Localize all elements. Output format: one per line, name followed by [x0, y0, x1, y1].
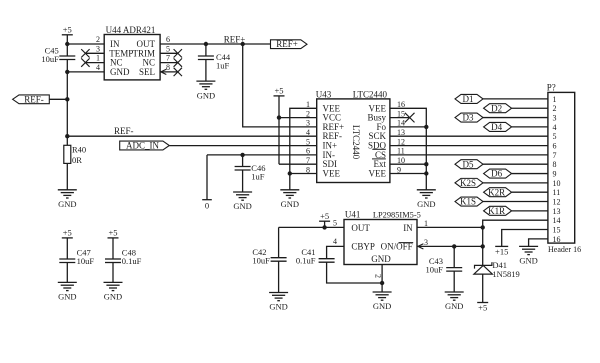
- power +5 (C48): [108, 228, 119, 238]
- svg-text:12: 12: [553, 198, 561, 207]
- wire U43 pin 8 VEE: [290, 173, 317, 175]
- svg-text:7: 7: [306, 156, 310, 165]
- port ADC_IN: [120, 140, 170, 150]
- svg-text:9: 9: [553, 170, 557, 179]
- wire D3 to header pin 3: [483, 117, 548, 119]
- wire C47 to ground: [66, 263, 68, 283]
- junction: [65, 70, 69, 74]
- svg-text:GND: GND: [104, 292, 122, 302]
- wire U43 pin 6 IN-: [207, 154, 317, 156]
- svg-text:3: 3: [306, 119, 310, 128]
- connector P? Header 16 body: [548, 92, 575, 243]
- junction: [424, 162, 428, 166]
- label C46 value: [251, 163, 265, 182]
- svg-text:1uF: 1uF: [251, 172, 264, 182]
- wire D4 to header pin 4: [512, 126, 548, 128]
- wire K2S to header pin 10: [483, 182, 548, 184]
- svg-text:0.1uF: 0.1uF: [122, 256, 142, 266]
- port D5: [455, 159, 483, 169]
- svg-text:GND: GND: [519, 256, 537, 266]
- wire U43 pin 14 Fo: [390, 126, 426, 128]
- svg-text:D5: D5: [463, 159, 474, 169]
- voltage regulator U41 LP2985IM5-5 body: [344, 220, 417, 265]
- svg-text:6: 6: [306, 147, 310, 156]
- svg-text:10uF: 10uF: [426, 265, 444, 275]
- port K1R: [484, 206, 512, 216]
- svg-text:2: 2: [374, 274, 383, 278]
- svg-text:REF-: REF-: [114, 126, 134, 136]
- port K2R: [484, 187, 512, 197]
- svg-text:7: 7: [553, 151, 557, 160]
- svg-text:7: 7: [166, 54, 170, 63]
- svg-text:14: 14: [553, 216, 561, 225]
- svg-text:4: 4: [553, 123, 557, 132]
- svg-text:U41: U41: [345, 210, 361, 220]
- U43 pin numbers left: [306, 100, 310, 174]
- wire C42 top: [278, 227, 280, 257]
- wire U43 pin 1 VEE: [290, 108, 317, 190]
- op-amp U44 ADR421 body: [104, 35, 160, 80]
- svg-text:6: 6: [553, 142, 557, 151]
- svg-text:2: 2: [553, 104, 557, 113]
- svg-text:0: 0: [205, 201, 209, 211]
- U44 pin 7 stub no-connect: [160, 62, 178, 64]
- label C44 value: [216, 52, 231, 71]
- wire REF- port to rail: [49, 98, 67, 100]
- wire U41 IN net: [417, 226, 483, 228]
- port D3: [455, 113, 483, 123]
- svg-text:REF+: REF+: [276, 39, 298, 49]
- svg-text:13: 13: [553, 207, 561, 216]
- svg-text:GND: GND: [281, 199, 299, 209]
- U43 pin 15 Busy stub no-connect: [390, 117, 410, 119]
- wire U43 pin 9 VEE: [390, 173, 426, 175]
- wire IN node down to D41: [482, 227, 484, 265]
- wire header pin 16 to ground: [529, 239, 548, 247]
- svg-text:15: 15: [553, 226, 561, 235]
- svg-text:5: 5: [553, 132, 557, 141]
- wire U44 pin 2 IN: [67, 43, 104, 45]
- wire U43 pin 10 Ext: [390, 163, 426, 165]
- junction: [380, 281, 384, 285]
- svg-text:VEE: VEE: [323, 169, 341, 179]
- junction: [424, 171, 428, 175]
- svg-text:1uF: 1uF: [216, 61, 230, 71]
- label C42 value: [252, 247, 270, 266]
- wire C43 to ground: [453, 271, 455, 292]
- junction REF- net: [65, 134, 69, 138]
- svg-text:D2: D2: [491, 103, 502, 113]
- svg-text:2: 2: [96, 35, 100, 44]
- wire +5 to C45: [66, 35, 68, 56]
- resistor R40: [64, 145, 71, 163]
- svg-text:10: 10: [553, 179, 561, 188]
- power +5 (D41): [477, 302, 488, 312]
- svg-text:1: 1: [306, 100, 310, 109]
- svg-text:5: 5: [306, 137, 310, 146]
- svg-text:8: 8: [306, 165, 310, 174]
- ground (C47): [58, 282, 77, 301]
- svg-text:8: 8: [166, 63, 170, 72]
- svg-text:11: 11: [553, 188, 561, 197]
- power +5 (above U43): [274, 86, 285, 96]
- wire U41 GND pin 2: [381, 265, 383, 293]
- svg-text:ADC_IN: ADC_IN: [126, 140, 159, 150]
- U43 left pin names: [323, 103, 345, 178]
- wire C48 to ground: [112, 263, 114, 283]
- wire U43 pin 16 VEE to ground rail: [390, 108, 426, 190]
- svg-text:3: 3: [553, 114, 557, 123]
- capacitor C41: [319, 259, 335, 263]
- power +15: [495, 246, 508, 256]
- svg-text:K1S: K1S: [460, 197, 476, 207]
- svg-text:K1R: K1R: [488, 206, 505, 216]
- svg-text:D4: D4: [491, 122, 502, 132]
- svg-text:OUT: OUT: [351, 223, 370, 233]
- wire U41 ON/OFF net: [417, 245, 483, 247]
- svg-text:+5: +5: [478, 302, 487, 312]
- wire U44 OUT to REF+: [160, 43, 270, 45]
- wire C46 to ground: [242, 170, 244, 192]
- node 0 terminal: [202, 155, 212, 211]
- svg-text:GND: GND: [445, 301, 463, 311]
- svg-text:+5: +5: [320, 211, 329, 221]
- svg-text:3: 3: [96, 44, 100, 53]
- header pin numbers 1-16: [553, 95, 561, 244]
- U44 pin numbers left: [96, 35, 100, 72]
- junction REF+: [241, 42, 245, 46]
- svg-text:GND: GND: [371, 254, 391, 264]
- wire U43 pin 7 SDI: [279, 163, 317, 165]
- port D1: [455, 94, 483, 104]
- junction D41: [481, 244, 485, 248]
- U44 pin 3 stub no-connect: [85, 52, 104, 54]
- svg-text:CBYP: CBYP: [351, 242, 375, 252]
- junction C43: [452, 244, 456, 248]
- svg-text:4: 4: [306, 128, 310, 137]
- port K1S: [455, 197, 483, 207]
- U44 pin numbers right: [166, 35, 170, 72]
- junction: [424, 125, 428, 129]
- svg-text:1: 1: [96, 54, 100, 63]
- ground (C48): [104, 282, 123, 301]
- label R40 0R: [72, 145, 86, 165]
- svg-text:GND: GND: [197, 90, 215, 100]
- svg-text:GND: GND: [58, 292, 76, 302]
- svg-text:4: 4: [96, 63, 100, 72]
- svg-text:ADR421: ADR421: [123, 25, 156, 35]
- svg-text:K2R: K2R: [488, 187, 505, 197]
- svg-text:U44: U44: [106, 25, 122, 35]
- svg-text:P?: P?: [547, 82, 556, 92]
- port REF-: [13, 94, 50, 104]
- ground (U41): [373, 292, 392, 311]
- wire header pin 15 to +15: [502, 230, 548, 247]
- label C43 value: [426, 256, 444, 275]
- svg-text:Header 16: Header 16: [548, 245, 581, 254]
- wire SCK to header pin 5: [390, 135, 548, 137]
- ground (C42): [269, 293, 288, 312]
- junction +5: [322, 225, 326, 229]
- port K2S: [455, 178, 483, 188]
- svg-text:D3: D3: [463, 113, 474, 123]
- svg-text:+5: +5: [63, 24, 72, 34]
- svg-text:1: 1: [424, 219, 428, 228]
- capacitor C42: [271, 258, 287, 262]
- svg-text:GND: GND: [269, 302, 287, 312]
- svg-text:GND: GND: [233, 201, 251, 211]
- svg-text:+5: +5: [274, 86, 283, 96]
- port REF+: [271, 39, 308, 49]
- ground (U43 right): [417, 190, 436, 209]
- svg-text:R40: R40: [72, 145, 86, 155]
- wire C41 bottom to GND junction: [327, 262, 383, 283]
- U44 pin 8 stub no-connect: [160, 71, 178, 73]
- svg-text:3: 3: [424, 238, 428, 247]
- wire K1S to header pin 12: [483, 201, 548, 203]
- wire D1 to header pin 1: [483, 98, 548, 100]
- wire D5 to header pin 8: [483, 163, 548, 165]
- svg-text:GND: GND: [58, 199, 76, 209]
- junction: [65, 42, 69, 46]
- U44 pin 5 stub no-connect: [160, 52, 178, 54]
- junction: [481, 225, 485, 229]
- label D41 1N5819: [492, 260, 519, 279]
- wire C45 down rail: [66, 60, 68, 146]
- wire C46 top: [242, 155, 244, 167]
- port D4: [484, 122, 512, 132]
- wire ADC_IN to U43 pin 5: [169, 145, 316, 147]
- ground (U43 left): [280, 190, 299, 209]
- wire header pin 14: [483, 220, 548, 227]
- wire C43 top: [453, 246, 455, 267]
- wire REF- net to U43 pin 4: [67, 135, 316, 137]
- diode D41 1N5819: [474, 262, 493, 274]
- svg-text:K2S: K2S: [460, 178, 476, 188]
- svg-text:5: 5: [333, 219, 337, 228]
- ground (C46): [233, 192, 252, 211]
- svg-text:U43: U43: [316, 89, 332, 99]
- port D2: [484, 103, 512, 113]
- ground (C44): [196, 81, 215, 100]
- svg-text:LTC2440: LTC2440: [351, 125, 361, 160]
- svg-text:+5: +5: [108, 228, 117, 238]
- junction: [288, 171, 292, 175]
- capacitor C45: [59, 56, 75, 60]
- wire D6 to header pin 9: [512, 173, 548, 175]
- svg-text:GND: GND: [417, 199, 435, 209]
- svg-text:6: 6: [166, 35, 170, 44]
- svg-text:1N5819: 1N5819: [492, 269, 519, 279]
- wire U43 pin 2 VCC: [279, 117, 317, 119]
- wire K1R to header pin 13: [512, 210, 548, 212]
- capacitor C46: [235, 167, 251, 171]
- svg-text:IN: IN: [403, 223, 413, 233]
- svg-text:8: 8: [553, 160, 557, 169]
- label U41 LP2985IM5-5: [345, 210, 421, 220]
- wire D41 anode to +5: [482, 274, 484, 302]
- svg-text:SEL: SEL: [139, 67, 155, 77]
- junction: [277, 115, 281, 119]
- wire +5 to VCC and SDI: [278, 96, 280, 164]
- label C41 value: [296, 247, 316, 266]
- ground (header 16): [519, 246, 538, 265]
- U43 right pin names: [367, 103, 386, 178]
- wire K2R to header pin 11: [512, 191, 548, 193]
- junction C44: [204, 42, 208, 46]
- svg-text:0R: 0R: [72, 155, 82, 165]
- svg-text:D6: D6: [491, 169, 502, 179]
- svg-text:LP2985IM5-5: LP2985IM5-5: [373, 211, 421, 220]
- wire C44 to ground: [205, 60, 207, 82]
- wire SDO to header pin 6: [390, 145, 548, 147]
- svg-text:10uF: 10uF: [41, 54, 59, 64]
- label C45 value: [41, 46, 59, 65]
- wire U41 CBYP to C41: [327, 246, 344, 258]
- U44 pin names: [109, 39, 155, 77]
- IC U43 LTC2440 body: [317, 99, 390, 183]
- wire CS to header pin 7: [390, 154, 548, 156]
- svg-text:0.1uF: 0.1uF: [296, 256, 316, 266]
- wire +5 to C47: [66, 238, 68, 259]
- svg-text:VEE: VEE: [369, 169, 387, 179]
- wire D2 to header pin 2: [512, 107, 548, 109]
- wire R40 to ground: [66, 163, 68, 189]
- power +5 (U41 OUT): [319, 211, 330, 228]
- power +5 (top left): [62, 24, 73, 34]
- svg-text:GND: GND: [110, 67, 130, 77]
- wire U41 OUT net: [279, 226, 344, 228]
- svg-text:10uF: 10uF: [77, 256, 95, 266]
- label U43 LTC2440: [316, 89, 388, 99]
- svg-text:2: 2: [306, 109, 310, 118]
- svg-text:REF-: REF-: [24, 94, 44, 104]
- capacitor C47: [59, 259, 75, 263]
- svg-text:D1: D1: [463, 94, 474, 104]
- wire REF+ down to U43 pin 3: [243, 44, 317, 127]
- svg-text:16: 16: [553, 235, 561, 244]
- capacitor C43: [446, 268, 462, 272]
- ground (R40): [58, 190, 77, 209]
- wire C44 top: [205, 44, 207, 56]
- svg-text:4: 4: [333, 237, 337, 246]
- label C48 value: [122, 248, 142, 267]
- svg-text:10uF: 10uF: [252, 256, 270, 266]
- wire +5 to C48: [112, 238, 114, 259]
- svg-text:GND: GND: [373, 301, 391, 311]
- capacitor C44: [198, 56, 214, 60]
- wire U44 pin 4 GND: [67, 71, 104, 73]
- wire C42 to ground: [278, 261, 280, 292]
- junction: [65, 97, 69, 101]
- svg-text:5: 5: [166, 44, 170, 53]
- U44 pin 1 stub no-connect: [85, 62, 104, 64]
- power +5 (C47): [62, 228, 73, 238]
- capacitor C48: [105, 259, 121, 263]
- label C47 value: [77, 248, 95, 267]
- svg-text:LTC2440: LTC2440: [353, 89, 388, 99]
- svg-text:1: 1: [553, 95, 557, 104]
- junction C46: [240, 153, 244, 157]
- U41 pin numbers: [333, 219, 428, 278]
- svg-text:+5: +5: [63, 228, 72, 238]
- U43 pin numbers right: [397, 100, 405, 174]
- label U44 ADR421: [106, 25, 156, 35]
- port D6: [484, 169, 512, 179]
- ground (C43): [445, 292, 464, 311]
- svg-text:+15: +15: [495, 246, 508, 256]
- U41 pin names: [351, 223, 413, 264]
